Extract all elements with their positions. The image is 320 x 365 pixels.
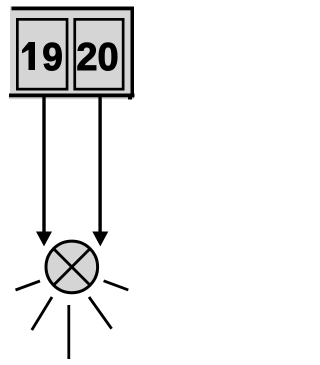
svg-text:20: 20 (76, 36, 118, 80)
svg-text:9: 9 (42, 36, 63, 79)
